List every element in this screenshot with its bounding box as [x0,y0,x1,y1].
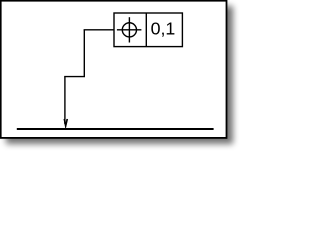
feature control frame [114,13,182,47]
leader arrowhead top notch [64,119,67,122]
surface line [17,128,214,130]
position symbol vertical arm [128,17,130,42]
page (white sheet with black border) [1,1,227,138]
frame cell divider [145,13,147,47]
wire leader upper vertical [83,30,85,77]
leader arrowhead [64,119,68,128]
svg-text:0,1: 0,1 [151,18,176,38]
page drop shadow [6,6,233,144]
position symbol horizontal arm [117,29,141,31]
position symbol circle [122,23,136,37]
wire leader lower vertical [64,77,66,124]
wire leader horizontal from frame [84,29,114,31]
wire leader step horizontal [64,76,85,78]
